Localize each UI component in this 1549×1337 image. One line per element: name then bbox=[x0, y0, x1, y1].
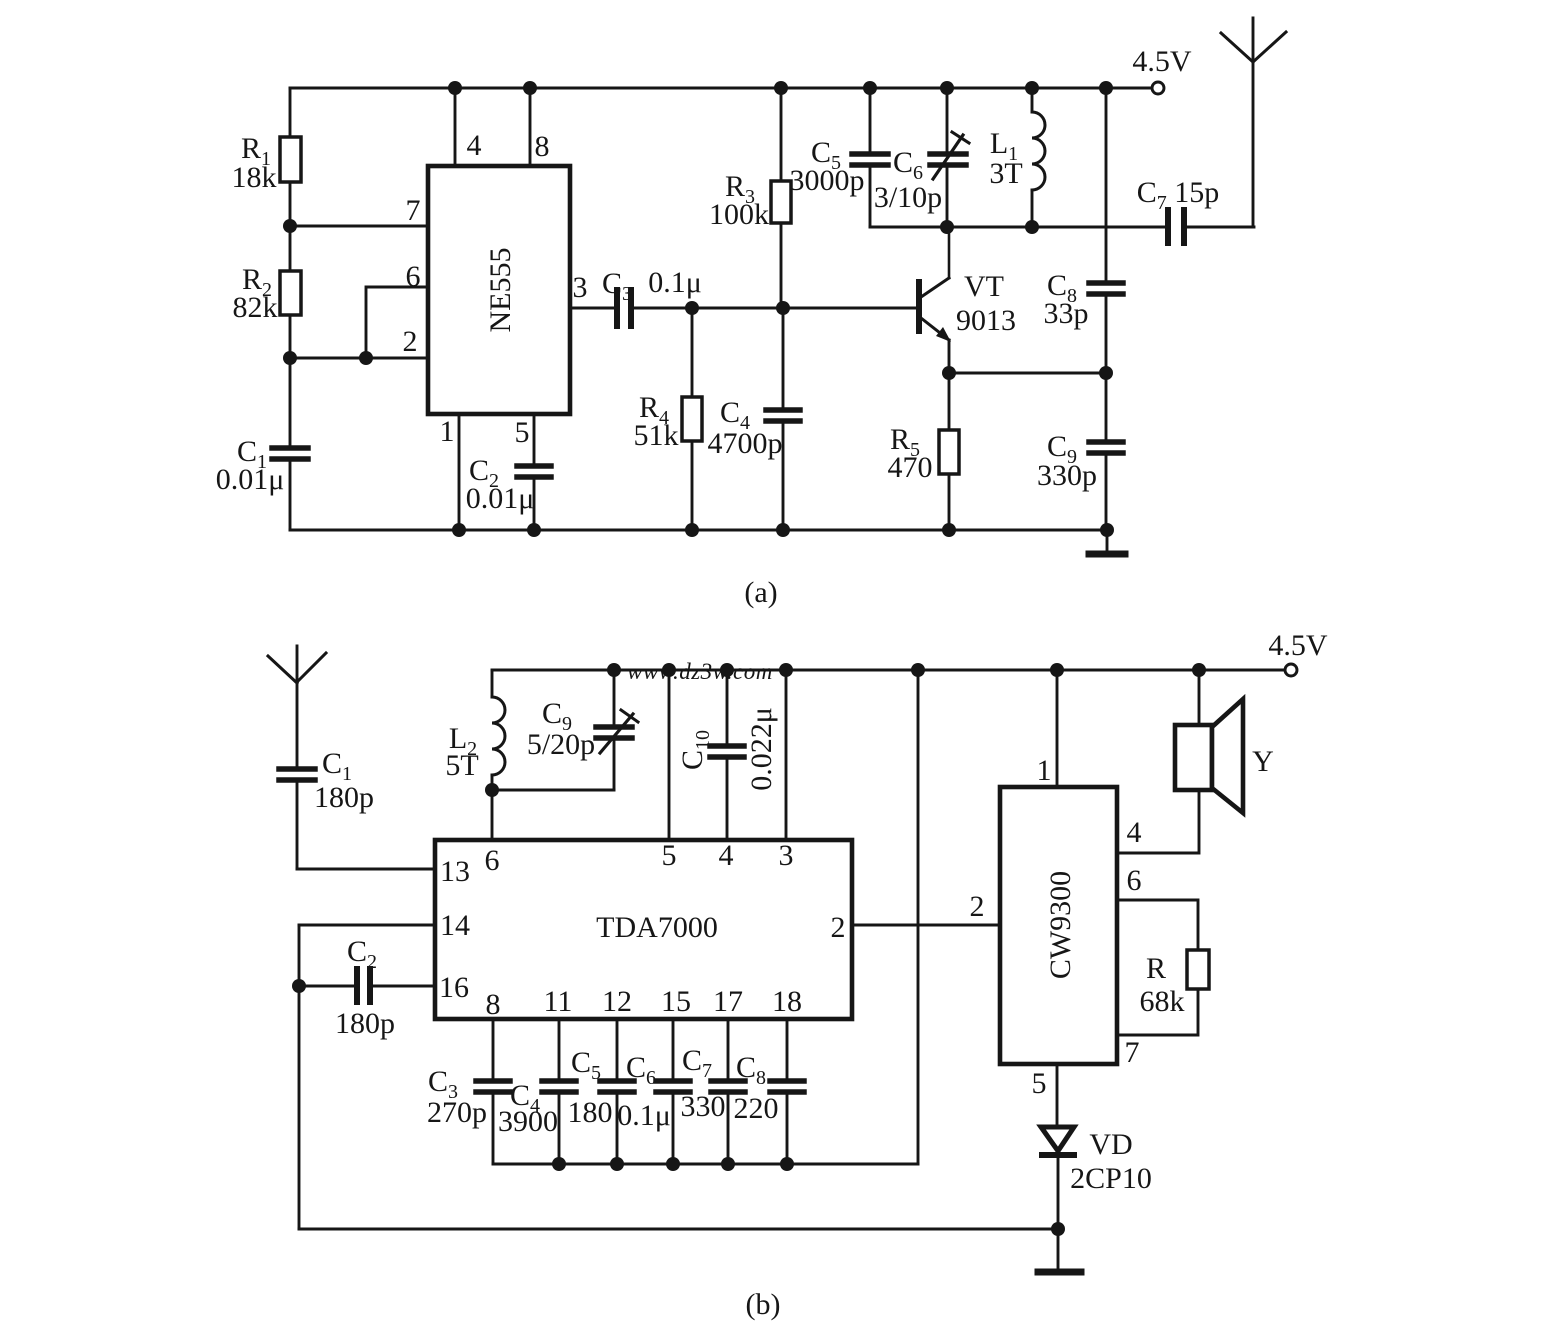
antenna of circuit (a) bbox=[1252, 18, 1255, 227]
svg-text:68k: 68k bbox=[1140, 985, 1185, 1018]
svg-text:C7 15p: C7 15p bbox=[1137, 176, 1220, 214]
wire: pin 6 of NE555 bbox=[366, 287, 428, 358]
wire: pin 2 lead (b) bbox=[852, 924, 1000, 927]
node: emitter wire to C8/C9 junction bbox=[1099, 366, 1113, 380]
svg-text:180: 180 bbox=[568, 1096, 613, 1129]
node: base node junction R3/C4 bbox=[776, 301, 790, 315]
svg-text:180p: 180p bbox=[335, 1007, 395, 1040]
op-amp U2: TDA7000 FM receiver IC box bbox=[435, 840, 852, 1019]
wire: pin 7 of NE555 bbox=[290, 225, 428, 228]
svg-text:6: 6 bbox=[1127, 864, 1142, 897]
svg-text:0.1μ: 0.1μ bbox=[617, 1099, 671, 1132]
svg-text:2CP10: 2CP10 bbox=[1070, 1162, 1152, 1195]
svg-text:4.5V: 4.5V bbox=[1268, 629, 1328, 662]
capacitor C6 (variable) bbox=[946, 88, 949, 151]
svg-text:4700p: 4700p bbox=[708, 427, 783, 460]
svg-text:9013: 9013 bbox=[956, 304, 1016, 337]
node: bus junction C8 (b) bbox=[780, 1157, 794, 1171]
wire: CW9300 pin 4 lead to speaker bbox=[1117, 790, 1199, 853]
svg-text:15: 15 bbox=[661, 985, 691, 1018]
capacitor C10 bbox=[726, 670, 729, 743]
wire: C2 bottom to bottom rail bbox=[533, 480, 536, 530]
svg-text:330: 330 bbox=[681, 1090, 726, 1123]
node: top rail junction bus riser bbox=[911, 663, 925, 677]
svg-text:13: 13 bbox=[440, 855, 470, 888]
svg-text:11: 11 bbox=[544, 985, 573, 1018]
svg-text:4: 4 bbox=[719, 839, 734, 872]
wire: C3 to transistor base node bbox=[634, 307, 920, 310]
resistor R5 bbox=[948, 373, 951, 430]
wire: left vertical rail (b) bbox=[298, 925, 301, 1229]
svg-text:330p: 330p bbox=[1037, 459, 1097, 492]
node: top rail junction at pin 8 bbox=[523, 81, 537, 95]
wire: 4.5V top rail of circuit (b) bbox=[492, 669, 1285, 672]
svg-text:18k: 18k bbox=[232, 161, 277, 194]
svg-text:220: 220 bbox=[734, 1092, 779, 1125]
svg-text:51k: 51k bbox=[634, 419, 679, 452]
node: top rail junction at C6 bbox=[940, 81, 954, 95]
svg-text:1: 1 bbox=[440, 415, 455, 448]
op-amp U1: NE555 timer IC box bbox=[428, 166, 570, 414]
node: tank junction collector/C6 bbox=[940, 220, 954, 234]
node: tank junction L1 bbox=[1025, 220, 1039, 234]
wire: 4.5V top rail of circuit (a) bbox=[290, 87, 1152, 90]
inductor L2 bbox=[491, 670, 494, 697]
svg-text:12: 12 bbox=[602, 985, 632, 1018]
svg-text:14: 14 bbox=[440, 909, 470, 942]
wire: CW9300 pin 5 lead bbox=[1056, 1064, 1059, 1127]
wire: pin 14 lead bbox=[299, 924, 435, 927]
svg-text:3: 3 bbox=[573, 271, 588, 304]
node: bottom rail junction C4 bbox=[776, 523, 790, 537]
node: junction diode/ground (b) bbox=[1051, 1222, 1065, 1236]
wire: pin 8 lead bbox=[529, 88, 532, 166]
capacitor C4 (b) bbox=[558, 1019, 561, 1078]
node: bottom rail junction ground bbox=[1100, 523, 1114, 537]
capacitor C9 bbox=[1105, 373, 1108, 439]
terminal: 4.5V supply terminal (b) bbox=[1285, 664, 1297, 676]
wire: CW9300 pin 6 lead bbox=[1117, 900, 1198, 950]
node: bus junction C6 (b) bbox=[666, 1157, 680, 1171]
svg-text:CW9300: CW9300 bbox=[1044, 871, 1077, 979]
ground symbol of circuit (a) bbox=[1106, 530, 1109, 552]
node: emitter junction bbox=[942, 366, 956, 380]
node: top rail junction C10 bbox=[720, 663, 734, 677]
inductor L1 bbox=[1031, 88, 1034, 112]
svg-text:6: 6 bbox=[485, 844, 500, 877]
svg-text:3T: 3T bbox=[989, 157, 1022, 190]
svg-text:6: 6 bbox=[406, 260, 421, 293]
svg-text:2: 2 bbox=[403, 325, 418, 358]
capacitor C5 bbox=[869, 88, 872, 152]
svg-text:5T: 5T bbox=[445, 749, 478, 782]
svg-text:270p: 270p bbox=[427, 1096, 487, 1129]
node: bus junction C5 (b) bbox=[610, 1157, 624, 1171]
ground symbol of circuit (b) bbox=[1057, 1229, 1060, 1269]
node: junction R1/R2/pin7 bbox=[283, 219, 297, 233]
terminal: 4.5V supply terminal (a) bbox=[1152, 82, 1164, 94]
svg-text:5/20p: 5/20p bbox=[527, 728, 595, 761]
svg-text:7: 7 bbox=[406, 194, 421, 227]
node: top rail junction at R3 bbox=[774, 81, 788, 95]
svg-text:100k: 100k bbox=[709, 198, 769, 231]
node: base node junction R4 bbox=[685, 301, 699, 315]
resistor R2 bbox=[280, 271, 301, 315]
capacitor C1 (b) bbox=[279, 766, 315, 772]
wire: R1 bottom to R2 top bbox=[289, 182, 292, 271]
node: top rail junction CW9300 pin 1 bbox=[1050, 663, 1064, 677]
svg-text:3/10p: 3/10p bbox=[874, 181, 942, 214]
node: junction pin2/pin6 branch bbox=[359, 351, 373, 365]
svg-text:5: 5 bbox=[662, 839, 677, 872]
node: junction L2/C9/pin6 (b) bbox=[485, 783, 499, 797]
node: top rail junction at C8 bbox=[1099, 81, 1113, 95]
svg-text:33p: 33p bbox=[1044, 297, 1089, 330]
svg-text:3: 3 bbox=[779, 839, 794, 872]
node: bottom rail junction pin 5 bbox=[527, 523, 541, 537]
svg-text:www.dz3w.com: www.dz3w.com bbox=[627, 659, 773, 684]
wire: pin 5 lead (b) bbox=[668, 670, 671, 840]
capacitor C1 bbox=[272, 445, 308, 451]
node: top rail junction C9 (b) bbox=[607, 663, 621, 677]
svg-text:(b): (b) bbox=[746, 1288, 781, 1321]
capacitor C5 (b) bbox=[616, 1019, 619, 1078]
svg-text:16: 16 bbox=[439, 971, 469, 1004]
wire: pin 2 of NE555 bbox=[290, 357, 428, 360]
svg-text:TDA7000: TDA7000 bbox=[596, 911, 718, 944]
node: top rail junction speaker bbox=[1192, 663, 1206, 677]
node: top rail junction at pin 4 bbox=[448, 81, 462, 95]
node: top rail junction pin 5 (b) bbox=[662, 663, 676, 677]
wire: bus riser from top rail to capacitor bus bbox=[917, 670, 920, 1164]
wire: pin 13 lead bbox=[297, 868, 435, 871]
wire: CW9300 pin 7 lead bbox=[1117, 989, 1198, 1035]
node: bottom rail junction pin 1 bbox=[452, 523, 466, 537]
wire: C1 bottom to bottom rail bbox=[289, 462, 292, 530]
svg-text:VD: VD bbox=[1089, 1128, 1132, 1161]
svg-text:1: 1 bbox=[1037, 754, 1052, 787]
wire: pin 3 lead (b) bbox=[785, 670, 788, 840]
capacitor C2 bbox=[517, 463, 551, 469]
wire: pin 4 lead bbox=[454, 88, 457, 166]
node: top rail junction pin 3 (b) bbox=[779, 663, 793, 677]
node: bus junction C4 (b) bbox=[552, 1157, 566, 1171]
op-amp U3: CW9300 audio amplifier IC box bbox=[1000, 787, 1117, 1064]
capacitor C7 (b) bbox=[727, 1019, 730, 1078]
capacitor C6 (b) bbox=[672, 1019, 675, 1078]
svg-text:470: 470 bbox=[888, 451, 933, 484]
transistor VT 9013 bbox=[916, 282, 922, 331]
node: top rail junction at L1 bbox=[1025, 81, 1039, 95]
resistor R1 bbox=[280, 137, 301, 182]
svg-text:0.1μ: 0.1μ bbox=[648, 266, 702, 299]
wire: pin 6 lead (b) bbox=[491, 790, 494, 840]
node: bottom rail junction R4 bbox=[685, 523, 699, 537]
svg-text:18: 18 bbox=[772, 985, 802, 1018]
capacitor C8 bbox=[1105, 88, 1108, 280]
capacitor C7 bbox=[1165, 210, 1171, 243]
svg-text:0.022μ: 0.022μ bbox=[745, 707, 778, 791]
capacitor C8 (b) bbox=[786, 1019, 789, 1078]
wire: bottom return wire (b) bbox=[299, 1228, 1058, 1231]
svg-text:(a): (a) bbox=[744, 576, 777, 609]
svg-text:5: 5 bbox=[1032, 1067, 1047, 1100]
wire: emitter node wire bbox=[949, 372, 1106, 375]
antenna of circuit (b) bbox=[296, 646, 299, 766]
svg-text:Y: Y bbox=[1252, 745, 1274, 778]
node: bus junction C7 (b) bbox=[721, 1157, 735, 1171]
wire: left rail from top rail to R1 bbox=[289, 88, 292, 137]
diode VD 2CP10 bbox=[1041, 1127, 1074, 1151]
svg-text:8: 8 bbox=[535, 130, 550, 163]
capacitor C3 (b) bbox=[492, 1019, 495, 1078]
speaker Y bbox=[1198, 670, 1201, 725]
svg-text:2: 2 bbox=[970, 890, 985, 923]
wire: decoupling capacitor bus bbox=[493, 1163, 918, 1166]
svg-text:VT: VT bbox=[964, 270, 1004, 303]
svg-text:82k: 82k bbox=[233, 291, 278, 324]
node: junction R2/C1/pin2 bbox=[283, 351, 297, 365]
wire: oscillator tank wire bbox=[870, 226, 1166, 229]
svg-text:0.01μ: 0.01μ bbox=[216, 463, 285, 496]
svg-text:3900: 3900 bbox=[498, 1105, 558, 1138]
resistor R3 bbox=[780, 88, 783, 181]
svg-text:5: 5 bbox=[515, 416, 530, 449]
svg-text:4.5V: 4.5V bbox=[1132, 45, 1192, 78]
capacitor C3 bbox=[614, 290, 620, 326]
svg-text:4: 4 bbox=[467, 129, 482, 162]
svg-text:4: 4 bbox=[1127, 816, 1142, 849]
capacitor C4 bbox=[782, 308, 785, 407]
svg-text:R: R bbox=[1146, 952, 1166, 985]
wire: CW9300 pin 1 lead bbox=[1056, 670, 1059, 787]
wire: R2 bottom to C1 top bbox=[289, 315, 292, 445]
svg-text:180p: 180p bbox=[314, 781, 374, 814]
capacitor C2 (b) bbox=[299, 985, 354, 988]
resistor R4 bbox=[691, 308, 694, 397]
svg-text:17: 17 bbox=[713, 985, 743, 1018]
wire: pin 1 lead bbox=[458, 414, 461, 530]
wire: pin 3 lead to C3 bbox=[570, 307, 614, 310]
capacitor C9 (b) (variable) bbox=[613, 670, 616, 724]
wire: pin 5 lead bbox=[533, 414, 536, 463]
node: junction C2 (b) bbox=[292, 979, 306, 993]
wire: ground bottom rail of circuit (a) bbox=[290, 529, 1107, 532]
svg-text:2: 2 bbox=[831, 911, 846, 944]
svg-text:0.01μ: 0.01μ bbox=[466, 482, 535, 515]
resistor R 68k bbox=[1187, 950, 1209, 989]
node: bottom rail junction R5 bbox=[942, 523, 956, 537]
svg-text:3000p: 3000p bbox=[790, 164, 865, 197]
svg-text:7: 7 bbox=[1125, 1036, 1140, 1069]
svg-text:8: 8 bbox=[486, 988, 501, 1021]
node: top rail junction at C5 bbox=[863, 81, 877, 95]
svg-text:NE555: NE555 bbox=[484, 248, 517, 333]
